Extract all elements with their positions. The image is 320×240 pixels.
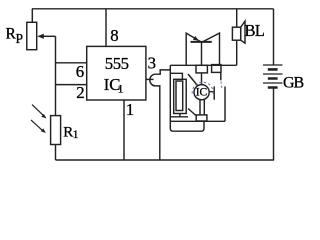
wire pin3 horizontal xyxy=(146,78,154,80)
wire left pad lines xyxy=(170,73,182,79)
svg-text:1: 1 xyxy=(73,127,79,141)
svg-text:GB: GB xyxy=(283,75,304,92)
wire right rail upper (top wire to battery) xyxy=(273,9,275,65)
music block left edge xyxy=(169,65,171,121)
wire hop arc at pin3 xyxy=(150,74,156,86)
potentiometer RP wiper arrow xyxy=(42,35,56,37)
music block bottom edge xyxy=(170,120,225,122)
bond wire padB down xyxy=(220,72,222,80)
wire pin8 vertical xyxy=(105,9,107,47)
wire pin6 horizontal xyxy=(56,62,87,64)
svg-text:8: 8 xyxy=(110,26,118,45)
wire inner-left bottom tick xyxy=(179,114,181,117)
svg-text:BL: BL xyxy=(245,21,265,40)
wire top rail xyxy=(32,8,274,10)
bond wire padA down xyxy=(201,73,203,84)
photo arrow 1 xyxy=(31,105,47,133)
music block top edge xyxy=(170,64,236,66)
svg-text:6: 6 xyxy=(76,62,84,81)
music block inner left outer rect xyxy=(174,79,187,113)
dashed blob outline xyxy=(192,82,213,94)
photo arrow 2 xyxy=(31,120,43,131)
svg-text:555: 555 xyxy=(105,54,129,73)
speaker BL cone xyxy=(241,21,245,43)
wire pot wiper down xyxy=(55,36,57,115)
music block pad C bottom xyxy=(196,115,207,121)
wire pin2 horizontal xyxy=(56,84,87,86)
transistor Q1 base bar xyxy=(191,41,212,43)
photoresistor R1 body xyxy=(51,116,61,145)
transistor Q1 base lead xyxy=(201,42,203,65)
wire arc bottom to down vertical xyxy=(155,86,159,160)
wire bottom rail xyxy=(56,159,275,161)
dashed bond continuation xyxy=(221,82,222,90)
bond wire circle right stub xyxy=(210,86,214,99)
wire right rail lower (battery to bottom wire) xyxy=(273,88,275,160)
speaker BL box xyxy=(232,27,240,40)
wire pin1 vertical xyxy=(123,100,125,160)
music block pad A xyxy=(196,65,207,73)
speaker BL feed wire xyxy=(236,9,238,27)
transistor Q1 emitter lead xyxy=(186,33,200,65)
svg-text:1: 1 xyxy=(118,81,124,95)
bond wire left diag to blob xyxy=(188,74,198,86)
wire inner bottom horizontal xyxy=(170,116,188,118)
potentiometer RP wiper arrowhead xyxy=(37,34,44,39)
svg-text:IC: IC xyxy=(196,87,208,99)
svg-text:2: 2 xyxy=(76,83,84,102)
speaker BL bottom wire xyxy=(236,40,238,65)
music block right edge xyxy=(224,87,226,122)
svg-text:1: 1 xyxy=(126,100,135,119)
op-amp U1 555 timer box xyxy=(87,46,146,100)
bond wire circle bottom leads xyxy=(200,99,204,115)
battery GB short plates xyxy=(268,69,278,87)
svg-text:P: P xyxy=(16,31,24,46)
svg-text:3: 3 xyxy=(148,53,156,72)
wire block to arc top xyxy=(155,70,170,74)
transistor Q1 collector lead xyxy=(203,33,220,65)
music block inner left inner rect xyxy=(176,81,183,111)
battery GB long plates xyxy=(263,65,283,83)
music block pad B xyxy=(212,65,221,73)
wire U below block xyxy=(170,121,204,131)
transistor Q1 emitter arrowhead xyxy=(193,36,199,41)
photoresistor R1 bottom lead xyxy=(55,145,57,161)
potentiometer RP top lead xyxy=(31,9,33,22)
IC circle xyxy=(194,85,209,100)
bond wire bottom-left diag xyxy=(188,109,196,116)
potentiometer RP body xyxy=(27,22,37,49)
